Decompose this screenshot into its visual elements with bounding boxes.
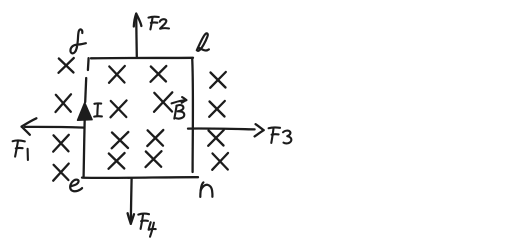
field symbol X (inside col 2, row 3) [147,130,163,146]
field symbol X (outside right, row 2) [209,101,225,117]
field symbol X (inside col 1, row 4) [109,153,125,169]
field symbol X (outside right, row 1) [210,72,226,88]
wire: loop left edge f-e (broken strokes) [84,58,89,176]
wire: loop top edge f-l [91,57,193,60]
current direction arrow (filled triangle) on left edge [78,103,92,120]
force arrow F3 (rightward from right edge) [188,124,264,136]
field symbol X (inside col 1, row 3) [112,132,129,148]
wire: loop bottom edge e-h [82,176,198,179]
label F2 [149,17,170,30]
field symbol X (outside right, row 3) [208,130,224,146]
label B vector (field symbol) [172,97,187,119]
field symbol X (inside col 1, row 1) [109,66,125,83]
force arrow F2 (upward from top edge) [134,14,142,57]
field symbol X (outside left, row 2) [56,94,72,112]
node l (top-right corner label, script ell) [197,33,209,50]
field symbol X (outside left, row 4) [53,164,68,181]
label I (current) [94,103,102,116]
field symbol X (inside col 2, row 1) [151,66,167,82]
node h (bottom-right corner label) [200,182,212,197]
field symbol X (inside col 2, row 2, large, next to B) [154,92,172,112]
field symbol X (outside right, row 4) [212,153,228,170]
field symbol X (inside col 2, row 4) [146,151,162,167]
field symbol X (outside left, row 1) [59,58,74,73]
wire: loop right edge l-h [191,58,194,172]
label F1 [13,141,28,160]
label F4 [138,214,155,237]
field symbol X (outside left, row 3) [53,135,69,152]
label F3 [269,127,292,143]
node e (bottom-left corner label) [70,180,82,192]
force arrow F4 (downward from bottom edge) [128,179,134,224]
force arrow F1 (leftward from left edge) [22,118,84,135]
node f (top-left corner label, script f) [70,29,85,53]
field symbol X (inside col 1, row 2) [111,101,127,118]
